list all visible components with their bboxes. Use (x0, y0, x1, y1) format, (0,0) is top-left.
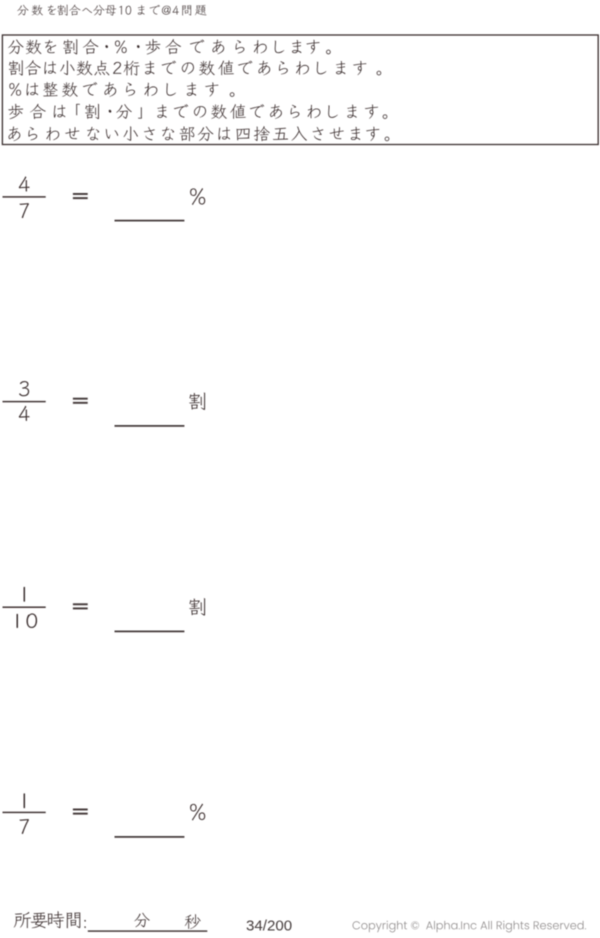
problem 1 numerator 4 (19, 176, 30, 191)
problem 1 fraction bar (3, 196, 46, 197)
problem 4 unit % (190, 804, 205, 821)
problem 1 denominator 7 (19, 203, 28, 218)
instruction line 5 "あらわせない小さな部分は四捨五入させます。" (9, 126, 390, 141)
problem 2 fraction bar (3, 401, 46, 402)
problem 3 numerator 1 (24, 587, 26, 602)
instruction line 2 "割合は小数点2桁までの数値であらわします。" (9, 60, 381, 75)
instruction line 1 "分数を割合・%・歩合であらわします。" (8, 39, 331, 54)
problem 3 unit 割 (189, 598, 205, 615)
footer 秒 (seconds) (185, 914, 201, 929)
problem 4 fraction bar (3, 812, 46, 813)
footer 分 (minutes) (134, 913, 149, 927)
problem 2 answer blank line (115, 425, 185, 427)
footer time underline (88, 930, 208, 931)
svg-text:34/200: 34/200 (246, 917, 292, 934)
problem 4 answer blank line (115, 836, 185, 838)
problem 2 numerator 3 (19, 381, 29, 396)
problem 4 numerator 1 (24, 793, 26, 808)
problem 3 equals sign (73, 603, 88, 609)
instruction line 4 "歩合は「割・分」までの数値であらわします。" (8, 104, 387, 119)
problem 2 unit 割 (189, 393, 205, 410)
problem 4 denominator 7 (19, 819, 28, 834)
problem 3 denominator 10 (17, 613, 38, 628)
problem 4 equals sign (73, 809, 88, 815)
problem 1 unit % (190, 188, 205, 205)
instruction box border (2, 35, 598, 145)
instruction line 3 "%は整数であらわします。" (9, 82, 234, 97)
problem 1 answer blank line (115, 220, 185, 222)
footer label 所要時間: (14, 911, 86, 928)
problem 3 answer blank line (115, 631, 185, 633)
copyright line (353, 921, 586, 933)
problem 1 equals sign (73, 193, 88, 199)
problem 2 equals sign (73, 398, 88, 404)
problem 3 fraction bar (3, 606, 46, 607)
page title "分数を割合へ分母10まで@4問題" (17, 5, 206, 16)
problem 2 denominator 4 (19, 406, 30, 421)
